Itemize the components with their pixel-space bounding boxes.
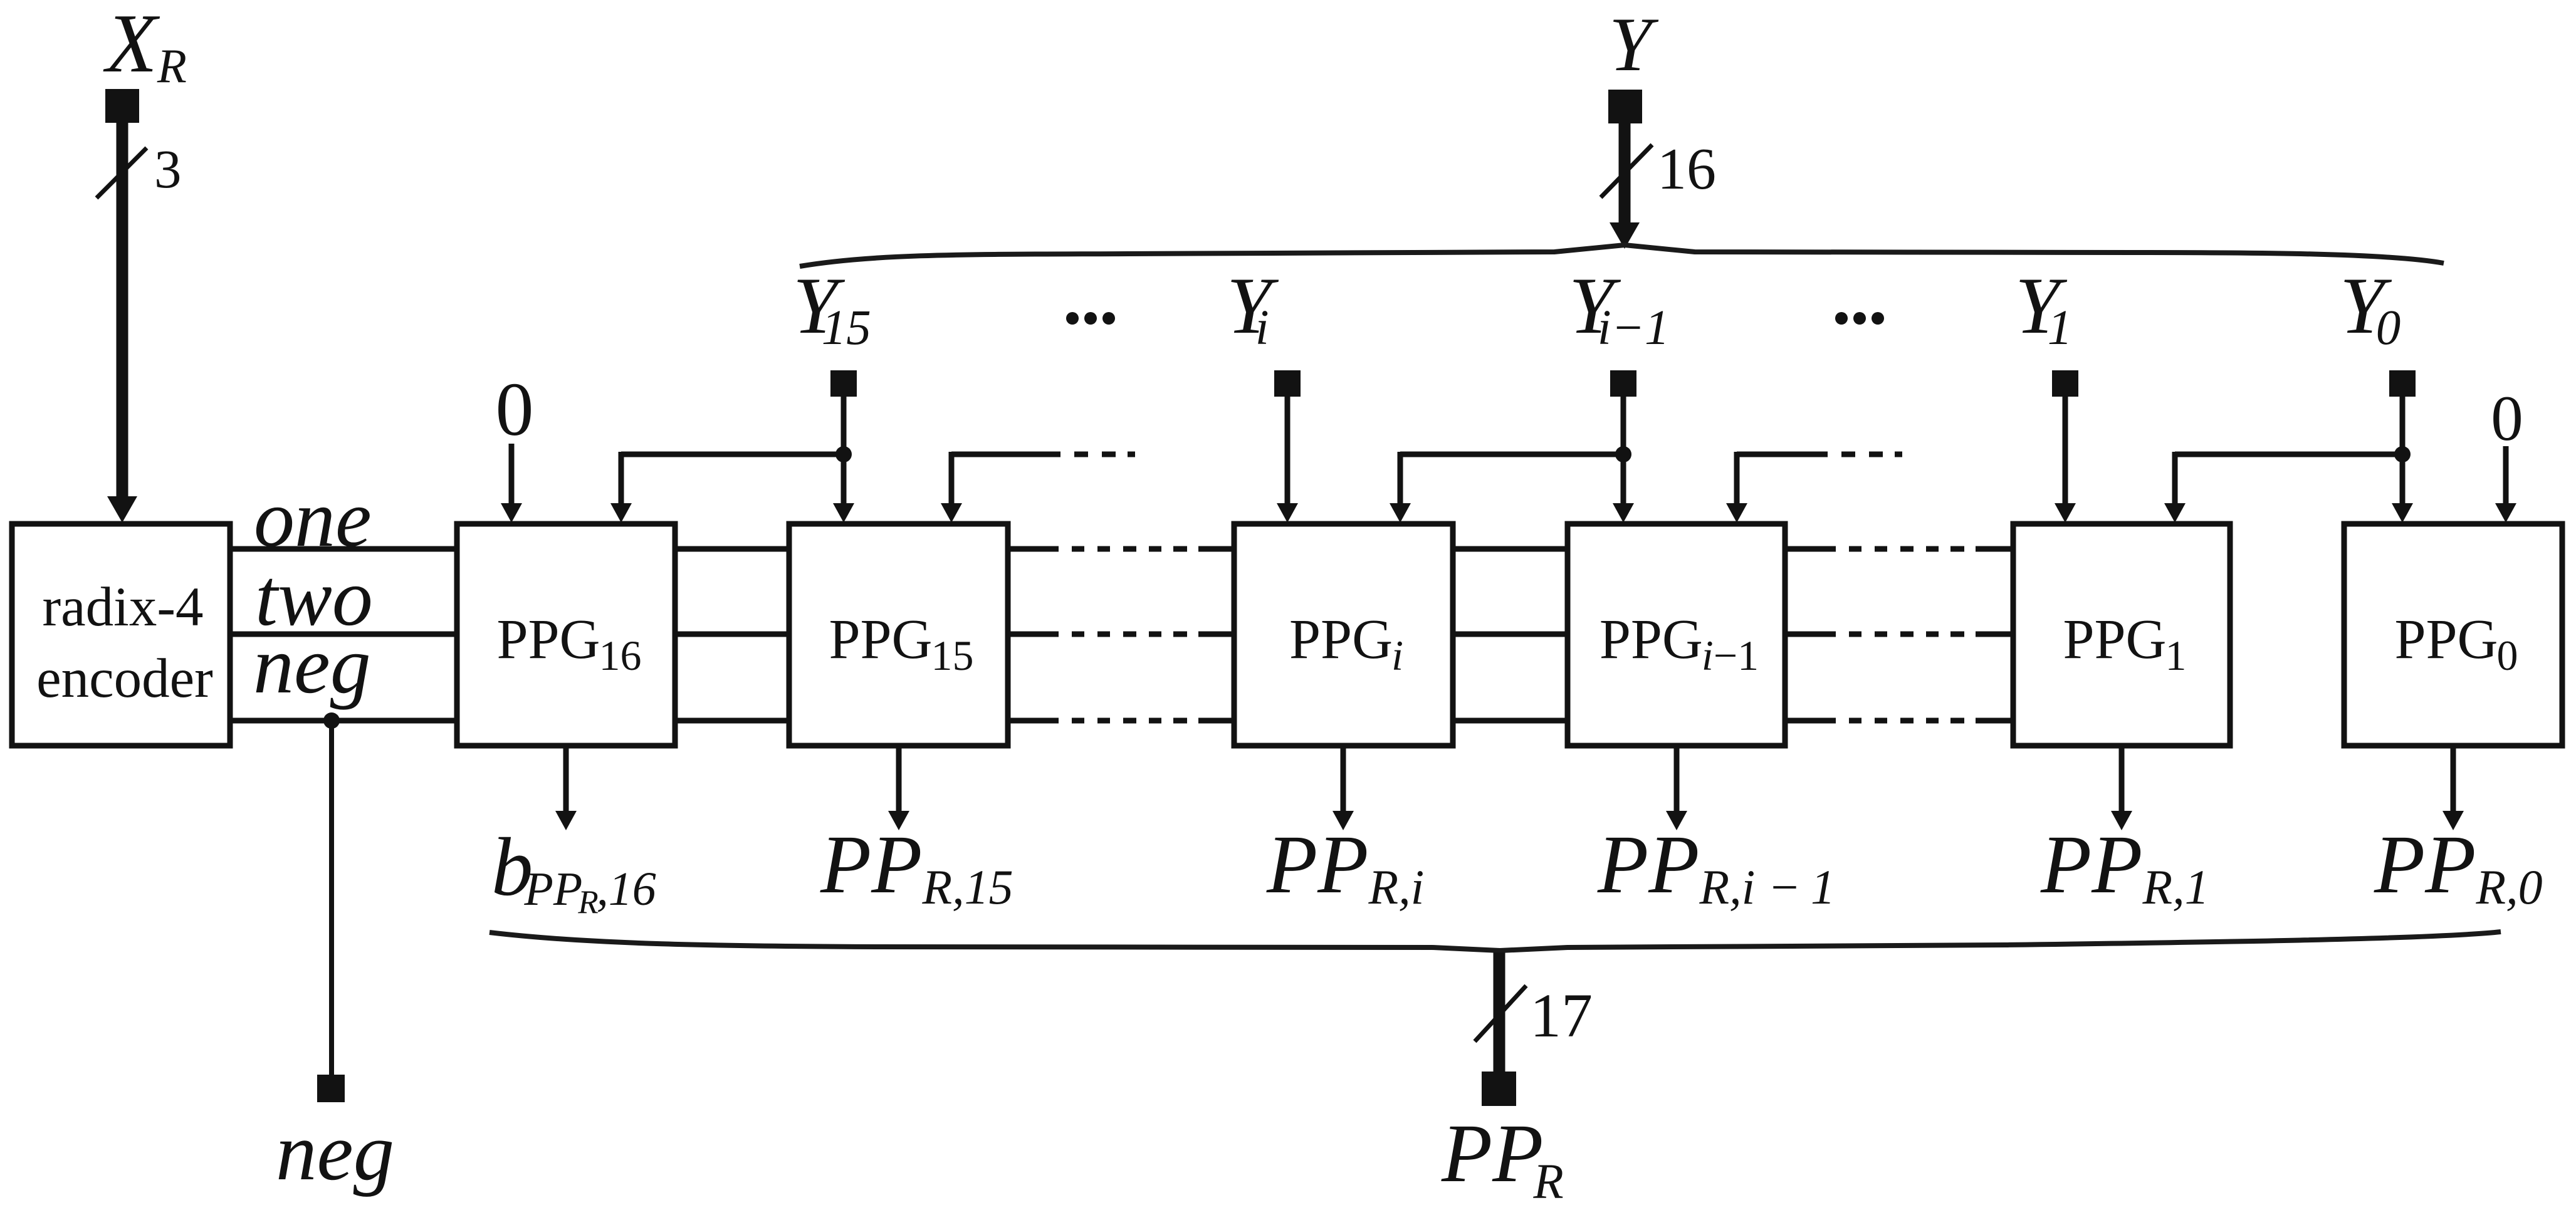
svg-text:0: 0: [2491, 383, 2523, 454]
output arrow of PPG1: [2119, 746, 2125, 813]
brace collecting partial products: [490, 932, 2501, 951]
bus-width slash on X_R: [97, 148, 147, 198]
wire stub right of PPGi-1 (to Yi-2, dissolving): [1737, 452, 1828, 457]
wire Yi tap: [1274, 370, 1301, 397]
wire two: [230, 632, 457, 637]
wire stub right of PPG15 (to Y14, dissolving): [951, 452, 1060, 457]
svg-text:16: 16: [1657, 137, 1716, 202]
wire one: [230, 546, 457, 552]
wires PPG16-PPG15: [675, 546, 789, 552]
wires PPGi-PPGi-1: [1453, 546, 1568, 552]
wire Yi-1 to PPGi right input: [1400, 452, 1623, 457]
wire neg branch down: [329, 721, 334, 1075]
svg-text:neg: neg: [253, 620, 371, 711]
wire Y0 to PPG1 right input: [2175, 452, 2402, 457]
svg-text:neg: neg: [276, 1107, 394, 1197]
wire neg: [230, 718, 457, 724]
bus-width slash on PP_R: [1475, 986, 1526, 1041]
svg-text:radix-4: radix-4: [42, 576, 203, 638]
block PPG1: [2013, 524, 2230, 746]
wire Y0 tap: [2389, 370, 2416, 397]
node X_R terminal square: [105, 89, 139, 123]
output arrow of PPGi-1: [1674, 746, 1680, 813]
wire Y15 tap: [830, 370, 857, 397]
svg-text:one: one: [254, 474, 372, 564]
bus wire X_R (3 bits): [117, 122, 128, 499]
node PP_R terminal square: [1482, 1072, 1516, 1106]
svg-text:0: 0: [496, 367, 534, 452]
bus wire PP_R (17 bits): [1494, 952, 1505, 1073]
wire Yi-1 tap: [1610, 370, 1636, 397]
bus-width slash on Y: [1601, 145, 1652, 197]
svg-text:17: 17: [1530, 981, 1593, 1050]
dashed wires PPGi-1-PPG1: [1785, 546, 2013, 552]
block PPG16: [457, 524, 675, 746]
block PPG0: [2344, 524, 2562, 746]
junction on neg wire: [323, 712, 340, 729]
svg-text:Y: Y: [1609, 1, 1659, 87]
block PPG15: [789, 524, 1008, 746]
output arrow of PPG15: [896, 746, 902, 813]
block PPGi: [1234, 524, 1453, 746]
ellipsis between Yi-1 and Y1: [1835, 312, 1848, 325]
svg-text:Yi: Yi: [1227, 261, 1279, 355]
output arrow of PPG0: [2451, 746, 2456, 813]
dashed wires PPG15-PPGi: [1008, 546, 1234, 552]
bus wire Y (16 bits): [1619, 123, 1631, 225]
ellipsis between Y15 and Yi: [1066, 312, 1079, 325]
brace splitting Y bus into bits: [800, 245, 2444, 266]
radix-4 encoder block: [12, 524, 230, 746]
svg-text:PPGi: PPGi: [1289, 608, 1403, 679]
node Y terminal square: [1608, 90, 1642, 123]
output arrow of PPGi: [1341, 746, 1346, 813]
wire Y1 tap: [2052, 370, 2078, 397]
output arrow of PPG16: [563, 746, 569, 813]
wire Y15 to PPG16 right input: [621, 452, 844, 457]
node neg terminal square: [317, 1075, 345, 1102]
block PPGi−1: [1568, 524, 1785, 746]
svg-text:3: 3: [154, 138, 182, 199]
svg-text:encoder: encoder: [36, 648, 213, 709]
